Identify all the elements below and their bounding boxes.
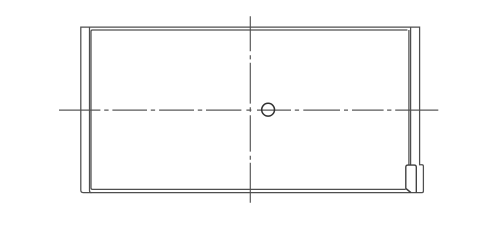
oil hole [262, 103, 275, 116]
left parting face line [90, 27, 92, 193]
right parting face line [410, 27, 412, 165]
horizontal centerline [59, 109, 438, 111]
inner bore profile [91, 30, 409, 189]
vertical centerline [249, 16, 251, 203]
locating tab [406, 165, 417, 193]
bearing outer profile [81, 27, 424, 193]
